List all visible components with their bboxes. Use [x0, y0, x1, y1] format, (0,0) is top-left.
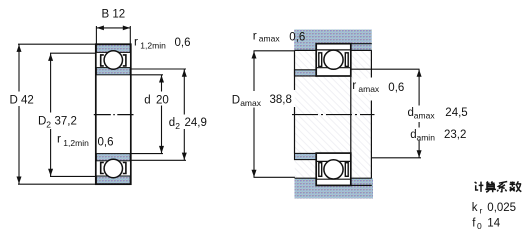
dimension B line	[96, 27, 130, 29]
seal left of top section	[101, 55, 104, 66]
dimension da extension line top	[351, 68, 420, 70]
dimension D2 extension line top	[50, 52, 96, 54]
dimension D2 arrow up	[48, 54, 53, 61]
svg-text:1,2min: 1,2min	[140, 41, 166, 51]
dimension D extension line bottom	[18, 183, 96, 185]
cage left (right view top)	[319, 53, 322, 67]
svg-text:0: 0	[477, 221, 482, 231]
bearing outline top section (right view)	[316, 44, 351, 76]
dimension Da extension line top	[254, 50, 295, 52]
svg-text:amax: amax	[240, 98, 262, 108]
housing bottom (blue halftone)	[295, 178, 374, 198]
svg-text:24,5: 24,5	[445, 107, 467, 119]
dimension d extension line top	[131, 74, 163, 76]
housing top step right vertical	[350, 44, 352, 51]
dimension da extension line bottom	[372, 157, 421, 159]
housing top step left vertical	[315, 44, 317, 51]
ball bottom (left view)	[104, 159, 122, 177]
dimension D2 line	[50, 53, 52, 112]
bearing outline rectangle (left view)	[96, 44, 131, 184]
housing top right block bottom edge	[351, 49, 372, 51]
dimension d arrow up	[159, 75, 164, 82]
dimension d line	[161, 75, 163, 92]
bearing outline bottom section (right view)	[316, 153, 351, 185]
svg-text:37,2: 37,2	[55, 116, 77, 128]
char suan	[486, 181, 494, 183]
svg-text:0,6: 0,6	[289, 32, 305, 44]
label (chinese) calculation factors 计算系数	[475, 181, 522, 192]
dimension da arrow down	[417, 150, 422, 157]
dimension B arrow right	[123, 26, 130, 31]
shaft shoulder strip bottom	[295, 153, 317, 159]
svg-text:24,9: 24,9	[185, 117, 207, 129]
dimension D line	[18, 44, 20, 91]
dimension d2 arrow down	[182, 153, 187, 160]
char ji	[475, 182, 479, 190]
svg-text:amin: amin	[417, 133, 436, 143]
svg-text:D 42: D 42	[10, 95, 34, 107]
svg-text:d: d	[169, 117, 175, 129]
svg-text:14: 14	[487, 218, 500, 230]
dimension D2 extension line bottom	[50, 175, 96, 177]
shaft shoulder strip top	[295, 70, 317, 76]
svg-text:38,8: 38,8	[270, 94, 292, 106]
housing bottom right step line	[351, 184, 372, 186]
dimension B extension lines	[95, 26, 97, 44]
svg-text:r: r	[253, 29, 257, 43]
svg-text:20: 20	[156, 94, 169, 106]
svg-text:f: f	[472, 218, 476, 230]
inner ring bottom line (right view bottom)	[316, 160, 351, 162]
housing face vertical line right	[370, 50, 372, 77]
svg-text:0,6: 0,6	[175, 37, 191, 49]
housing bottom step left vertical	[315, 178, 317, 186]
svg-text:B 12: B 12	[102, 9, 126, 21]
dimension Da extension line bottom	[254, 176, 295, 178]
bearing right face line between sections	[350, 76, 352, 153]
outer ring bottom band (left view)	[96, 176, 130, 184]
housing top shoulder bottom edge	[295, 49, 317, 51]
seal right of bottom section	[123, 163, 126, 174]
dimension d2 line	[183, 69, 185, 114]
ball (right view top)	[324, 50, 343, 69]
svg-text:0,6: 0,6	[98, 137, 114, 149]
housing top (blue halftone)	[294, 30, 372, 51]
faint scan hatch in left bearing interior	[97, 77, 131, 154]
svg-text:0,025: 0,025	[487, 202, 516, 214]
svg-text:amax: amax	[414, 111, 436, 121]
svg-text:amax: amax	[358, 84, 380, 94]
dimension D arrow up	[17, 45, 22, 52]
svg-text:D: D	[232, 95, 240, 107]
housing bottom right block top edge	[351, 177, 372, 179]
char shu	[510, 182, 516, 187]
dimension D extension line top	[18, 43, 96, 45]
svg-text:D: D	[38, 116, 46, 128]
dimension d2 arrow up	[182, 69, 187, 76]
svg-text:0,6: 0,6	[388, 82, 404, 94]
ball (right view bottom)	[324, 160, 343, 179]
shoulder face vertical line left	[294, 50, 296, 90]
inner ring top line (right view top)	[316, 67, 351, 69]
axis centerline (right view)	[292, 114, 375, 116]
dimension D2 arrow down	[48, 169, 53, 176]
cage right (right view top)	[345, 53, 348, 67]
dimension B arrow left	[97, 26, 104, 31]
inner ring top band (left view)	[96, 68, 130, 75]
dimension Da arrow up	[252, 51, 257, 58]
svg-text:23,2: 23,2	[444, 129, 466, 141]
svg-text:2: 2	[46, 119, 51, 129]
ball top (left view)	[104, 51, 122, 69]
outer ring groove line (right view bottom)	[316, 178, 351, 180]
faint scan hatch in right view middle	[295, 51, 371, 178]
cage right (right view bottom)	[345, 163, 348, 177]
svg-text:r: r	[57, 132, 61, 146]
svg-text:amax: amax	[259, 34, 281, 44]
dimension d2 extension line top	[131, 68, 186, 70]
svg-text:2: 2	[175, 121, 180, 131]
svg-text:r: r	[480, 206, 483, 216]
housing bottom step right vertical	[350, 178, 352, 186]
seal left of bottom section	[101, 163, 104, 174]
housing top right step line	[351, 43, 372, 45]
inner ring bottom band (left view)	[96, 154, 130, 161]
svg-text:k: k	[472, 202, 478, 214]
dimension Da arrow down	[252, 170, 257, 177]
dimension D arrow down	[17, 177, 22, 184]
dimension Da line	[253, 51, 255, 91]
white box behind ramax middle label	[352, 79, 405, 94]
dimension d arrow down	[159, 146, 164, 153]
outer ring top band (left view)	[96, 45, 130, 53]
cage left (right view bottom)	[319, 163, 322, 177]
svg-text:d: d	[144, 94, 150, 106]
dimension da line	[418, 69, 420, 105]
axis centerline (left view)	[94, 114, 134, 116]
outer ring groove line (right view top)	[316, 49, 351, 51]
svg-text:1,2min: 1,2min	[63, 138, 89, 148]
housing bottom shoulder top edge	[295, 177, 317, 179]
dimension da arrow up	[417, 70, 422, 77]
char xi	[498, 182, 507, 189]
svg-text:r: r	[352, 78, 356, 92]
seal right of top section	[123, 55, 126, 66]
dimension d extension line bottom	[131, 153, 163, 155]
svg-text:r: r	[134, 34, 138, 48]
dimension d2 extension line bottom	[131, 159, 186, 161]
